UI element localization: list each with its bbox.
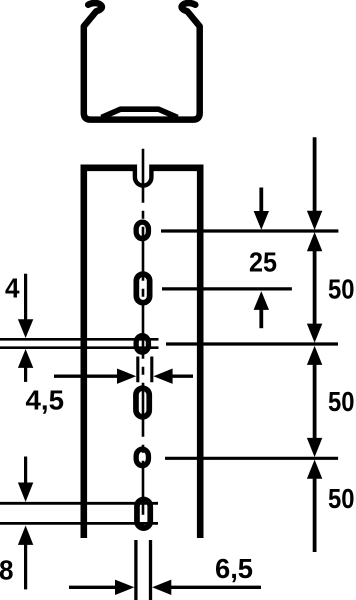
dim 4 down arrow (24, 274, 27, 321)
dim 4,5 left arrow (54, 375, 118, 378)
hole2 tangent line lower (dim 4) (0, 346, 159, 349)
dim 25 up arrow (259, 309, 263, 328)
slot width extension lines (dim 6,5) (136, 540, 151, 600)
dim 6,5 right arrow (170, 586, 261, 589)
cross-section outline with curled lips (84, 3, 200, 120)
svg-text:25: 25 (249, 246, 277, 277)
slot 2 (136, 388, 149, 417)
svg-text:8: 8 (0, 555, 14, 586)
hole2 tangent line upper (dim 4) (0, 338, 159, 341)
dimension line hole3 (165, 457, 338, 460)
svg-text:50: 50 (328, 483, 355, 514)
svg-text:4: 4 (5, 273, 20, 304)
dimension line hole1 (161, 229, 338, 232)
bottom rib of cross-section (102, 109, 178, 117)
svg-text:50: 50 (328, 386, 355, 417)
dim 8 up arrow (24, 544, 27, 589)
round hole 1 (136, 222, 148, 239)
dim 25 down arrow (259, 188, 263, 213)
dim 8 down arrow (24, 457, 27, 484)
slot 1 (136, 274, 149, 303)
dimension line slot1 (162, 287, 292, 290)
slot width extension lines (dim 4,5) (138, 357, 152, 383)
top notch (135, 165, 152, 186)
dimension line hole2 (166, 342, 338, 345)
round hole 3 (136, 449, 148, 466)
slot3 tangent line upper (dim 8) (0, 502, 158, 505)
slot 3 (137, 500, 150, 529)
chain dimension 50 third segment (313, 478, 317, 552)
dim 6,5 left arrow (69, 586, 116, 589)
svg-text:6,5: 6,5 (215, 553, 253, 584)
dim 4 up arrow (24, 367, 27, 382)
centerline (142, 149, 145, 529)
dim 4,5 right arrow (172, 375, 193, 378)
round hole 2 (136, 336, 148, 353)
slot3 tangent line lower (dim 8) (0, 522, 158, 525)
chain dimension 50 first segment (313, 250, 317, 325)
chain dimension vertical above line1 (313, 137, 317, 212)
svg-text:4,5: 4,5 (26, 385, 65, 416)
chain dimension 50 second segment (313, 364, 317, 439)
front view body (84, 168, 200, 538)
svg-text:50: 50 (328, 273, 355, 304)
